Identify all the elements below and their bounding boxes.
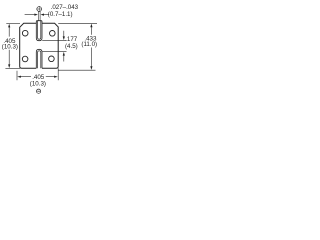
left dim line lower: [8, 50, 10, 65]
left dim bottom arrowhead: [8, 64, 10, 68]
lead width left arrowhead: [34, 14, 38, 16]
.433 top arrowhead: [90, 24, 92, 28]
.177 upper arrowhead (down): [63, 36, 65, 40]
hole circle top-left: [22, 30, 28, 36]
bottom dim right arrowhead: [54, 76, 58, 78]
.433 dim line lower: [90, 48, 92, 67]
.433 bottom extension line: [58, 69, 95, 71]
.177 upper extension line: [42, 39, 66, 41]
plate body outline: [20, 23, 59, 68]
.177 lower arrowhead (up): [63, 52, 65, 56]
left dim extension bottom: [5, 68, 20, 70]
.433 top extension line: [58, 22, 97, 24]
minus polarity symbol circle: [37, 89, 41, 93]
bottom dim line left segment: [20, 76, 31, 78]
lead width dim line right segment: [44, 14, 49, 16]
upper slot outer: [36, 21, 42, 41]
minus polarity symbol bar: [37, 90, 40, 92]
lead cross-section crosshair: [36, 6, 42, 12]
left dim extension top: [6, 22, 20, 24]
svg-text:(11.0): (11.0): [81, 41, 97, 48]
hole circle bottom-right: [49, 56, 55, 62]
svg-text:(0.7–1.1): (0.7–1.1): [48, 11, 73, 18]
.177 lower arrow line: [63, 55, 65, 61]
svg-text:(10.3): (10.3): [2, 43, 18, 50]
.177 upper arrow line: [63, 31, 65, 37]
lower slot lead: [38, 51, 41, 69]
bottom dim left arrowhead: [17, 76, 21, 78]
lead width right arrowhead: [41, 14, 45, 16]
.177 lower extension line: [42, 51, 66, 53]
svg-text:(4.5): (4.5): [65, 43, 78, 50]
bottom dim line right segment: [46, 76, 54, 78]
bottom dim right ext (plate right edge extended): [57, 68, 59, 80]
lead wires above slot: [38, 12, 40, 21]
left dim top arrowhead: [8, 24, 10, 28]
upper slot lead: [38, 21, 41, 39]
left dim line upper: [8, 27, 10, 37]
hole circle bottom-left: [22, 56, 28, 62]
hole circle top-right: [50, 31, 56, 37]
.433 dim line upper: [90, 27, 92, 35]
lead width dim line left segment: [25, 14, 35, 16]
bottom dim left ext: [16, 71, 18, 80]
lead cross-section circle: [37, 7, 42, 12]
lower slot outer: [36, 49, 42, 68]
.433 bottom arrowhead: [90, 66, 92, 70]
svg-text:(10.3): (10.3): [30, 81, 46, 88]
